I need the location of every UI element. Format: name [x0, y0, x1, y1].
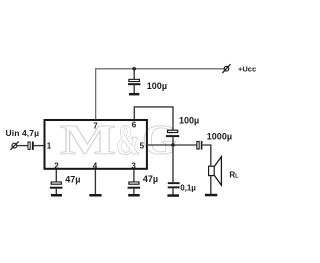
- svg-text:1: 1: [47, 141, 52, 150]
- wire pin 5 right: [147, 144, 196, 146]
- capacitor C7 47u pin3: [128, 181, 141, 188]
- ground under C5: [167, 194, 179, 197]
- wire junction down to C2: [133, 69, 135, 80]
- capacitor C6 47u pin2: [50, 181, 63, 188]
- svg-text:3: 3: [131, 162, 136, 171]
- svg-text:7: 7: [93, 121, 98, 130]
- svg-text:5: 5: [140, 141, 145, 150]
- svg-text:0,1µ: 0,1µ: [180, 184, 196, 193]
- capacitor C2 100u supply: [128, 79, 140, 85]
- svg-text:100µ: 100µ: [179, 115, 199, 125]
- ground under pin 4: [89, 194, 101, 197]
- capacitor C3 100u bootstrap: [166, 130, 179, 138]
- wire speaker to ground: [210, 176, 212, 194]
- svg-text:4: 4: [93, 162, 98, 171]
- svg-text:M: M: [60, 117, 116, 164]
- wire C7 to ground: [133, 189, 135, 195]
- wire node A down to C5: [172, 145, 174, 182]
- wire pin 4 down to ground: [94, 169, 96, 194]
- capacitor C4 1000u output: [196, 141, 202, 150]
- wire C1 to pin 1: [34, 145, 44, 147]
- wire C2 to ground: [133, 85, 135, 93]
- wire pin 2 down: [55, 169, 57, 181]
- svg-text:+Ucc: +Ucc: [238, 64, 256, 73]
- wire C6 to ground: [55, 189, 57, 195]
- capacitor C1 4,7u input: [28, 142, 34, 150]
- svg-text:100µ: 100µ: [147, 81, 167, 91]
- svg-text:1000µ: 1000µ: [207, 131, 232, 141]
- ground under speaker: [205, 194, 217, 197]
- wire pin 3 down: [133, 169, 135, 181]
- svg-text:&: &: [116, 117, 140, 164]
- op-amp IC U1 body: [45, 120, 147, 169]
- wire C3 down to node A: [172, 137, 174, 145]
- junction node A on pin 5 wire: [171, 143, 175, 147]
- input terminal Uin: [10, 141, 18, 149]
- svg-text:RL: RL: [229, 170, 239, 179]
- wire pin 6 up and right to C3: [134, 107, 173, 130]
- svg-text:47µ: 47µ: [143, 174, 158, 184]
- junction node on Ucc rail: [132, 67, 136, 71]
- watermark M&G: [60, 117, 177, 164]
- svg-text:Uin 4,7µ: Uin 4,7µ: [6, 128, 40, 138]
- svg-text:6: 6: [132, 121, 137, 130]
- ground under C2: [129, 93, 139, 96]
- ground under C7: [128, 194, 140, 197]
- capacitor C5 0,1u: [168, 182, 180, 188]
- wire C4 to speaker: [202, 145, 210, 166]
- wire terminal to C1: [17, 145, 28, 147]
- svg-text:2: 2: [54, 162, 59, 171]
- wire C5 to ground: [172, 188, 174, 194]
- ground under C6: [51, 194, 62, 197]
- wire pin 7 up: [95, 69, 97, 120]
- terminal +Ucc: [222, 64, 230, 73]
- speaker RL: [209, 157, 222, 186]
- wire +Ucc rail: [95, 68, 224, 70]
- svg-text:47µ: 47µ: [65, 174, 80, 184]
